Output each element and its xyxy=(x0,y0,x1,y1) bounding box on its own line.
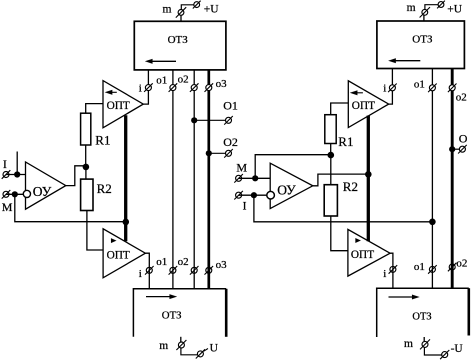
terminal o3 (bottom left) xyxy=(205,266,214,275)
svg-text:o3: o3 xyxy=(216,259,228,271)
node tap O2 xyxy=(206,150,212,156)
svg-text:m: m xyxy=(159,340,168,352)
svg-text:ОПТ: ОПТ xyxy=(107,100,130,112)
node output A2 on photodetector line xyxy=(365,171,372,178)
svg-text:o3: o3 xyxy=(216,78,228,90)
inverting bubble A2 xyxy=(267,191,275,199)
svg-text:ОПТ: ОПТ xyxy=(351,249,374,261)
wire U2 output to i xyxy=(145,253,149,289)
stub wire above I node xyxy=(16,152,18,175)
wire R1 to node J2 xyxy=(330,144,332,156)
led arrow inside U2 xyxy=(111,238,116,243)
svg-text:o1: o1 xyxy=(414,79,425,91)
wire OT31 pin o3 stub (bold) xyxy=(207,70,210,85)
optocoupler U2 (bottom left OPT) xyxy=(103,229,145,278)
terminal i (bottom left) xyxy=(145,266,154,275)
svg-text:O: O xyxy=(459,131,468,145)
node on M input xyxy=(12,191,18,197)
svg-text:ОТЗ: ОТЗ xyxy=(162,310,182,322)
node I bus on o1 wire xyxy=(429,219,436,226)
svg-text:U: U xyxy=(210,343,219,355)
inverting bubble A1 xyxy=(23,190,30,197)
svg-text:o1: o1 xyxy=(156,256,167,268)
terminal m of OT32 xyxy=(180,337,182,342)
arrow inside OT32 xyxy=(146,296,171,298)
node on M input (right) xyxy=(252,175,258,181)
terminal I input (left) xyxy=(2,170,11,179)
wire R1 to node J1 xyxy=(85,145,87,167)
node J2 (R1/R2/M wire) xyxy=(328,152,335,159)
wire to terminal O xyxy=(452,148,459,150)
svg-text:m: m xyxy=(404,338,413,350)
terminal O2 xyxy=(224,149,233,158)
bus wire o3 (left, bold) xyxy=(207,91,210,289)
terminal o1 (top left) xyxy=(169,83,178,92)
svg-text:ОТЗ: ОТЗ xyxy=(168,34,189,46)
svg-text:ОТЗ: ОТЗ xyxy=(412,34,433,46)
terminal m of OT33 xyxy=(423,15,425,21)
top transfer unit OT33 box xyxy=(377,21,465,69)
terminal +U (left) xyxy=(193,1,201,9)
svg-text:o2: o2 xyxy=(178,256,189,268)
wire OT31 pin o1 stub xyxy=(172,70,174,85)
node on I input xyxy=(14,171,20,177)
arrow inside OT31 xyxy=(152,60,177,62)
svg-text:R2: R2 xyxy=(343,179,358,194)
bottom transfer unit OT32 box (open bottom) xyxy=(133,289,226,337)
svg-text:ОУ: ОУ xyxy=(33,184,52,199)
svg-text:R2: R2 xyxy=(97,181,112,196)
terminal o2 (bottom left) xyxy=(190,266,199,275)
svg-text:i: i xyxy=(139,83,142,95)
svg-text:I: I xyxy=(243,201,247,213)
wire A2 output to photodetector line xyxy=(313,174,369,186)
photodetector line (right, bold) xyxy=(367,116,370,242)
svg-text:ОПТ: ОПТ xyxy=(107,249,130,261)
wire m to -U jumper (bottom left) xyxy=(181,348,198,355)
wire i to optocoupler U3 output xyxy=(389,91,393,104)
right edge of OT34 (bold) xyxy=(467,288,470,335)
node tap O1 xyxy=(191,117,197,123)
node M bus to photodetector line xyxy=(123,219,130,226)
svg-text:ОПТ: ОПТ xyxy=(352,100,375,112)
terminal o1 (top right) xyxy=(428,84,437,93)
svg-text:O1: O1 xyxy=(223,98,238,112)
terminal o1 (bottom left) xyxy=(169,266,178,275)
node on I input (right) xyxy=(251,192,257,198)
wire OT31 pin o2 stub xyxy=(193,70,195,85)
wire R2 to optocoupler U2 input xyxy=(87,211,103,251)
svg-text:o2: o2 xyxy=(178,73,189,85)
terminal U (bottom left) xyxy=(196,349,205,358)
terminal O xyxy=(458,145,467,154)
arrow inside U1 xyxy=(111,91,117,93)
optocoupler U3 (top right OPT) xyxy=(348,81,388,128)
wire OT33 pin o2 stub (bold) xyxy=(451,69,454,85)
terminal m of OT34 xyxy=(423,337,425,342)
bus wire o1 (right) xyxy=(431,91,433,288)
bus wire o2 (left) xyxy=(193,91,195,289)
terminal o2 (top left) xyxy=(190,83,199,92)
svg-text:+U: +U xyxy=(447,3,462,15)
svg-text:o1: o1 xyxy=(156,74,167,86)
led arrow inside U4 xyxy=(355,238,360,243)
svg-text:o2: o2 xyxy=(456,257,467,269)
wire to terminal O2 xyxy=(209,152,226,154)
wire OT33 pin o1 stub xyxy=(431,69,433,85)
op-amp A1 (left OU) xyxy=(26,162,66,209)
svg-text:ОТЗ: ОТЗ xyxy=(412,312,431,323)
resistor R1 (right) xyxy=(325,115,336,144)
wire input I (right) xyxy=(239,194,267,196)
terminal i (top left) xyxy=(144,83,153,92)
wire to terminal O1 xyxy=(194,119,225,121)
bus wire o2 (right, bold) xyxy=(451,91,454,288)
wire M bus down and right xyxy=(15,194,126,221)
right edge of OT32 (bold) xyxy=(225,289,228,337)
bus wire o1 (left) xyxy=(172,91,174,289)
wire R2 to optocoupler U4 input xyxy=(331,216,348,251)
wire slash toward U label xyxy=(204,349,209,352)
svg-text:-U: -U xyxy=(451,343,464,355)
photodetector line (left, bold) xyxy=(124,115,127,241)
wire J2 to R2 (right) xyxy=(330,155,332,185)
svg-text:i: i xyxy=(139,268,142,280)
svg-text:М: М xyxy=(236,161,247,175)
terminal -U (bottom right) xyxy=(440,350,449,359)
wire input M xyxy=(6,193,23,195)
svg-text:I: I xyxy=(3,159,7,171)
terminal I input (right) xyxy=(234,191,243,200)
terminal M input (left) xyxy=(2,190,11,199)
svg-text:i: i xyxy=(383,83,386,95)
svg-text:O2: O2 xyxy=(223,135,238,149)
svg-text:o2: o2 xyxy=(456,92,467,104)
terminal i (top right) xyxy=(388,84,397,93)
terminal m of OT31 xyxy=(180,15,182,21)
terminal O1 xyxy=(224,116,233,125)
terminal o3 (top left) xyxy=(205,83,214,92)
resistor R2 (left) xyxy=(81,179,93,210)
wire I bus down and right to o1 xyxy=(254,195,433,222)
wire M node up to J2 xyxy=(255,155,331,179)
wire m to +U jumper xyxy=(181,5,194,10)
arrow inside OT34 xyxy=(389,296,414,298)
svg-text:+U: +U xyxy=(204,4,219,16)
node J1 (R1/R2/op-amp output) xyxy=(83,164,90,171)
terminal o2 (top right) xyxy=(448,84,457,93)
svg-text:R1: R1 xyxy=(95,132,110,147)
wire J1 to R2 xyxy=(85,167,87,179)
wire m to +U jumper (right) xyxy=(425,5,438,10)
svg-text:R1: R1 xyxy=(338,134,353,149)
node tap O xyxy=(449,146,455,152)
wire input M (right) xyxy=(239,177,271,179)
resistor R1 (left) xyxy=(81,113,91,145)
wire i to optocoupler U1 output xyxy=(143,91,148,105)
optocoupler U1 (top left OPT) xyxy=(103,81,143,128)
optocoupler U4 (bottom right OPT) xyxy=(348,229,390,276)
svg-text:М: М xyxy=(2,200,13,214)
terminal o2 (bottom right) xyxy=(448,263,457,272)
svg-text:m: m xyxy=(407,2,416,14)
top transfer unit OT31 box xyxy=(134,21,226,70)
wire m to -U jumper (bottom right) xyxy=(424,347,442,355)
terminal i (bottom right) xyxy=(389,265,398,274)
svg-text:m: m xyxy=(163,4,172,16)
resistor R2 (right) xyxy=(324,185,337,216)
bottom transfer unit OT34 box (open bottom) xyxy=(377,288,469,337)
wire U3 input to R1 xyxy=(331,103,349,115)
terminal +U (right) xyxy=(437,1,445,9)
terminal o1 (bottom right) xyxy=(428,265,437,274)
svg-text:i: i xyxy=(383,268,386,280)
op-amp A2 (right OU) xyxy=(270,163,313,208)
wire U1 input to R1 xyxy=(86,104,103,114)
wire U4 output to i (bottom right) xyxy=(390,253,393,288)
arrow inside U3 xyxy=(356,92,363,94)
svg-text:o1: o1 xyxy=(414,261,425,273)
arrow inside OT33 xyxy=(395,60,421,62)
wire A1 output to J1 xyxy=(66,166,86,186)
wire input I xyxy=(6,174,26,176)
wire OT33 pin i stub xyxy=(391,69,393,85)
terminal M input (right) xyxy=(234,174,243,183)
svg-text:ОУ: ОУ xyxy=(277,182,296,197)
wire OT31 pin i stub xyxy=(147,70,149,85)
